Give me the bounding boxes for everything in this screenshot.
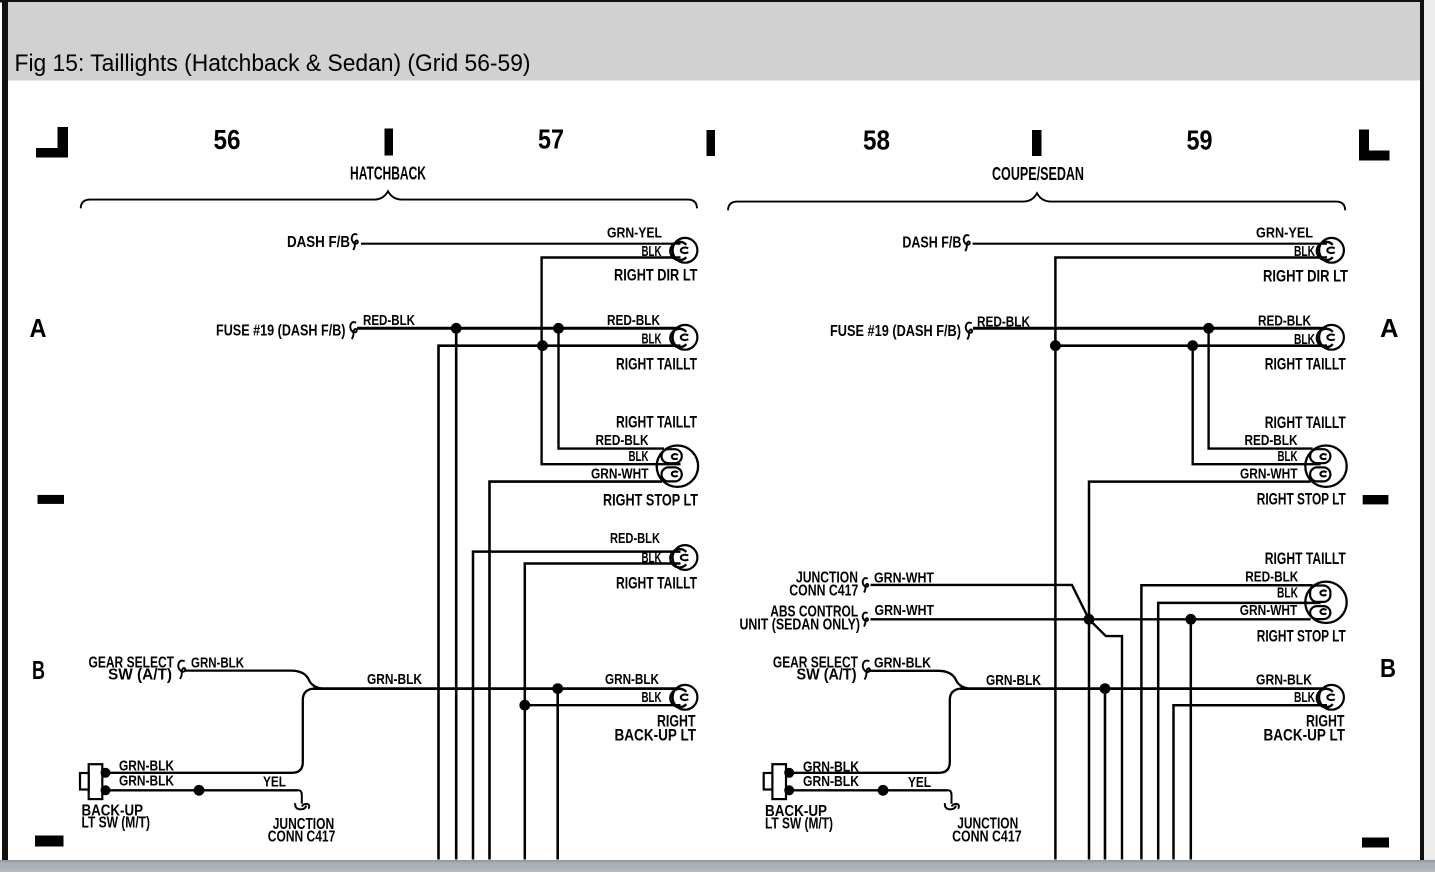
svg-text:RIGHT STOP LT: RIGHT STOP LT	[1257, 491, 1346, 509]
wire GRN-BLK off-page down (sedan)	[1104, 689, 1107, 860]
junction dot on YEL wire (sedan)	[878, 785, 889, 796]
junction dot GRN-WHT off-page branch (sedan)	[1185, 614, 1196, 625]
junction dot GRN-BLK off-page branch (sedan)	[1100, 683, 1111, 694]
svg-text:BLK: BLK	[1294, 689, 1315, 706]
switch BACK-UP LT SW M/T (sedan)	[764, 764, 795, 799]
wire BLK ground of dir lt down to stop lt BLK (hatchback)	[542, 258, 681, 465]
wire BLK ground back-up lt (hatchback)	[525, 704, 681, 706]
connector JUNCTION CONN C417 (sedan)	[863, 578, 869, 592]
grid tick 56/57	[385, 129, 394, 156]
top-left corner mark	[36, 127, 68, 158]
svg-text:YEL: YEL	[908, 774, 931, 791]
wire GRN-BLK main back-up feed (sedan)	[960, 687, 1327, 690]
svg-text:RIGHT TAILLT: RIGHT TAILLT	[1265, 355, 1346, 373]
connector JUNCTION CONN C417 hook (sedan)	[945, 790, 959, 809]
wire GRN-BLK off-page down (hatchback)	[556, 689, 559, 860]
bulb RIGHT DIR LT (hatchback)	[670, 238, 697, 263]
bulb RIGHT BACK-UP LT (sedan)	[1317, 685, 1344, 710]
wire GRN-WHT stop feed off-page (hatchback)	[490, 482, 663, 860]
bottom-left edge tick	[35, 836, 64, 847]
svg-text:RED-BLK: RED-BLK	[363, 312, 415, 329]
bottom scrollbar strip	[0, 860, 1435, 872]
top-right corner mark	[1359, 130, 1390, 161]
svg-text:RIGHT TAILLT: RIGHT TAILLT	[1265, 414, 1346, 432]
wire BLK ground of dir lt off-page (sedan)	[1055, 258, 1327, 860]
connector ABS CONTROL UNIT (sedan)	[863, 613, 868, 627]
connector GEAR SELECT SW (sedan)	[863, 661, 870, 680]
svg-text:RIGHT TAILLT: RIGHT TAILLT	[616, 355, 697, 373]
bulb RIGHT STOP LT dual filament (hatchback)	[657, 446, 698, 487]
wire RED-BLK down to stop lt pin (sedan)	[1209, 328, 1313, 448]
wire GRN-BLK from gear select sw (hatchback)	[184, 671, 322, 689]
connector FUSE #19 (sedan)	[966, 323, 973, 340]
wire BLK ground of taillt (hatchback)	[439, 346, 681, 860]
svg-text:GRN-WHT: GRN-WHT	[591, 466, 649, 483]
svg-text:GRN-BLK: GRN-BLK	[605, 671, 659, 688]
svg-text:GRN-BLK: GRN-BLK	[367, 671, 422, 688]
viewer top border line	[0, 0, 1424, 3]
svg-text:CONN C417: CONN C417	[952, 829, 1022, 846]
wire BLK ground taillt lower (hatchback)	[525, 564, 681, 860]
wire GRN-WHT ABS control unit to stop lt 2 (sedan)	[871, 618, 1311, 620]
viewer left border	[2, 0, 8, 860]
junction dot on YEL wire (hatchback)	[194, 785, 205, 796]
svg-text:LT SW (M/T): LT SW (M/T)	[765, 816, 833, 833]
svg-text:RIGHT DIR LT: RIGHT DIR LT	[614, 267, 698, 285]
junction dot back-up BLK / taillt BLK chain (hatchback)	[519, 700, 530, 711]
svg-text:56: 56	[214, 124, 241, 155]
grid tick 57/58	[707, 130, 716, 156]
svg-text:RED-BLK: RED-BLK	[610, 530, 660, 547]
bulb RIGHT TAILLT upper (hatchback)	[670, 325, 697, 350]
wire RED-BLK down to stop lt pin (hatchback)	[559, 328, 665, 448]
svg-text:DASH F/B: DASH F/B	[287, 234, 350, 251]
grid tick 58/59	[1032, 130, 1042, 156]
junction dot ABS node (sedan)	[1084, 614, 1095, 625]
svg-text:LT SW (M/T): LT SW (M/T)	[82, 815, 151, 832]
left edge tick A/B	[38, 495, 65, 504]
svg-text:RIGHT STOP LT: RIGHT STOP LT	[603, 492, 698, 510]
wire BLK ground stop lt 2 off-page (sedan)	[1158, 603, 1321, 860]
viewer right border	[1420, 0, 1424, 860]
svg-text:BLK: BLK	[1278, 448, 1298, 465]
svg-text:RED-BLK: RED-BLK	[596, 432, 649, 449]
wire GRN-BLK from gear select sw (sedan)	[868, 671, 969, 689]
connector DASH F/B (hatchback)	[352, 234, 358, 250]
wire GRN-BLK main back-up feed (hatchback)	[313, 687, 681, 690]
svg-text:RIGHT DIR LT: RIGHT DIR LT	[1263, 268, 1348, 286]
bulb RIGHT BACK-UP LT (hatchback)	[670, 685, 697, 710]
wire vertical off-page from fuse junction (hatchback)	[455, 328, 458, 859]
svg-text:YEL: YEL	[263, 774, 286, 791]
right edge tick A/B	[1363, 495, 1389, 504]
junction dot fuse/taillt branch (hatchback)	[451, 323, 462, 334]
wire jog from ABS node down off-page (sedan)	[1089, 619, 1122, 859]
svg-text:GRN-BLK: GRN-BLK	[119, 773, 174, 790]
svg-text:UNIT (SEDAN ONLY): UNIT (SEDAN ONLY)	[740, 616, 861, 633]
svg-text:GRN-BLK: GRN-BLK	[803, 773, 859, 790]
bulb RIGHT STOP LT dual filament (sedan)	[1305, 446, 1346, 487]
wire BLK ground back-up lt off-page (sedan)	[1174, 705, 1328, 859]
bulb RIGHT STOP LT 2 dual filament (sedan)	[1305, 582, 1346, 623]
svg-text:BACK-UP LT: BACK-UP LT	[615, 727, 697, 745]
svg-text:GRN-YEL: GRN-YEL	[607, 224, 662, 241]
svg-text:GRN-BLK: GRN-BLK	[1256, 672, 1312, 689]
wire GRN-BLK from back-up sw top pin (hatchback)	[106, 689, 314, 773]
svg-text:RED-BLK: RED-BLK	[607, 312, 660, 329]
svg-text:GRN-BLK: GRN-BLK	[191, 655, 244, 672]
svg-text:BLK: BLK	[1277, 585, 1298, 602]
svg-text:CONN C417: CONN C417	[789, 582, 858, 599]
svg-text:CONN C417: CONN C417	[268, 828, 336, 845]
junction dot fuse/stop branch (hatchback)	[553, 323, 564, 334]
svg-text:RED-BLK: RED-BLK	[1245, 568, 1298, 585]
coupe/sedan section brace	[728, 193, 1345, 210]
wire GRN-WHT from junction conn to ABS node (sedan)	[871, 585, 1090, 619]
svg-text:SW (A/T): SW (A/T)	[108, 667, 172, 684]
svg-text:GRN-YEL: GRN-YEL	[1256, 225, 1313, 242]
svg-text:RIGHT TAILLT: RIGHT TAILLT	[1265, 550, 1346, 568]
connector DASH F/B (sedan)	[964, 235, 970, 251]
bulb RIGHT DIR LT (sedan)	[1317, 238, 1344, 263]
svg-text:GRN-WHT: GRN-WHT	[1240, 466, 1298, 483]
hatchback section brace	[81, 191, 697, 208]
svg-text:BLK: BLK	[642, 689, 662, 706]
svg-text:57: 57	[538, 124, 564, 155]
wire BLK down to stop lt BLK pin (sedan)	[1193, 346, 1321, 465]
wire GRN-YEL dash feed (sedan)	[973, 243, 1328, 245]
svg-text:SW (A/T): SW (A/T)	[797, 667, 857, 684]
svg-text:A: A	[1380, 313, 1399, 343]
wire GRN-BLK from back-up sw top pin (sedan)	[789, 689, 960, 773]
svg-text:FUSE #19 (DASH F/B): FUSE #19 (DASH F/B)	[830, 323, 961, 340]
connector FUSE #19 (hatchback)	[350, 322, 357, 339]
junction dot fuse/stop branch (sedan)	[1203, 323, 1214, 334]
svg-text:BACK-UP LT: BACK-UP LT	[1264, 727, 1346, 745]
wire GRN-YEL dash feed to right dir lt (hatchback)	[361, 243, 681, 245]
svg-text:COUPE/SEDAN: COUPE/SEDAN	[992, 164, 1084, 184]
wire RED-BLK fuse feed (hatchback)	[357, 327, 681, 330]
svg-text:RED-BLK: RED-BLK	[1258, 313, 1311, 330]
svg-text:GRN-BLK: GRN-BLK	[874, 654, 931, 671]
svg-text:HATCHBACK: HATCHBACK	[350, 164, 426, 184]
bottom-right edge tick	[1362, 838, 1389, 848]
svg-text:B: B	[1380, 653, 1396, 683]
junction dot GRN-BLK off-page branch (hatchback)	[552, 683, 563, 694]
svg-text:RIGHT TAILLT: RIGHT TAILLT	[616, 575, 697, 593]
svg-text:RIGHT TAILLT: RIGHT TAILLT	[616, 414, 697, 432]
junction dot taillt BLK / stop BLK (sedan)	[1187, 340, 1198, 351]
wire GRN-BLK/YEL from back-up sw bottom pin (hatchback)	[106, 789, 298, 791]
svg-text:GRN-BLK: GRN-BLK	[986, 672, 1041, 689]
svg-text:A: A	[30, 313, 47, 343]
svg-text:DASH F/B: DASH F/B	[902, 234, 961, 251]
wire BLK ground of taillt (sedan)	[1055, 344, 1327, 347]
wire RED-BLK stop lt 2 feed off-page (sedan)	[1141, 585, 1312, 859]
connector JUNCTION CONN C417 hook (hatchback)	[295, 790, 309, 809]
svg-text:RIGHT STOP LT: RIGHT STOP LT	[1257, 627, 1346, 645]
svg-text:59: 59	[1187, 125, 1213, 156]
junction dot taillt BLK / dir BLK chain (hatchback)	[537, 340, 548, 351]
wire RED-BLK fuse feed (sedan)	[973, 327, 1327, 330]
wire GRN-WHT off-page down (sedan)	[1190, 619, 1193, 859]
bulb RIGHT TAILLT lower (hatchback)	[670, 545, 697, 570]
svg-text:GRN-WHT: GRN-WHT	[1240, 602, 1298, 619]
svg-text:RED-BLK: RED-BLK	[1245, 432, 1298, 449]
connector GEAR SELECT SW (hatchback)	[178, 661, 185, 679]
svg-text:FUSE #19 (DASH F/B): FUSE #19 (DASH F/B)	[216, 323, 346, 340]
wire GRN-BLK/YEL from back-up sw bottom pin (sedan)	[789, 789, 947, 791]
svg-text:58: 58	[863, 125, 890, 156]
title bar	[8, 2, 1420, 81]
junction dot taillt BLK / dir BLK (sedan)	[1050, 340, 1061, 351]
svg-text:Fig 15: Taillights (Hatchback: Fig 15: Taillights (Hatchback & Sedan) (…	[15, 50, 531, 77]
switch BACK-UP LT SW M/T (hatchback)	[80, 764, 111, 799]
wire RED-BLK taillt lower feed (hatchback)	[473, 552, 681, 860]
svg-text:GRN-WHT: GRN-WHT	[875, 602, 935, 619]
bulb RIGHT TAILLT (sedan)	[1317, 325, 1344, 350]
wire GRN-WHT stop feed down to ABS junction (sedan)	[1089, 482, 1311, 860]
svg-text:BLK: BLK	[629, 448, 649, 465]
svg-text:B: B	[32, 655, 45, 685]
right margin strip	[1424, 0, 1435, 860]
